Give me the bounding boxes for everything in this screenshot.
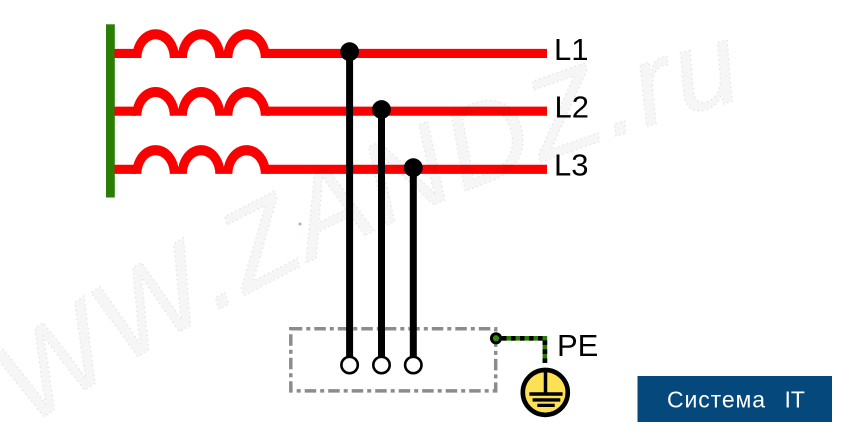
svg-text:Система: Система [667,387,766,413]
svg-text:PE: PE [557,328,598,363]
svg-text:IT: IT [785,387,805,413]
